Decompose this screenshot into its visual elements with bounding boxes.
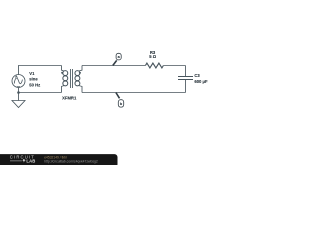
svg-text:http://circuitlab.com/c4qvk47z: http://circuitlab.com/c4qvk47zwbsg2 — [44, 160, 98, 164]
svg-text:XFMR1: XFMR1 — [62, 96, 77, 101]
svg-text:600 µF: 600 µF — [194, 79, 208, 84]
svg-text:C3: C3 — [194, 73, 200, 78]
svg-text:50 Hz: 50 Hz — [29, 83, 40, 88]
svg-text:LAB: LAB — [26, 158, 35, 163]
svg-text:sine: sine — [29, 77, 38, 82]
svg-text:V1: V1 — [29, 71, 35, 76]
svg-text:5 Ω: 5 Ω — [149, 54, 156, 59]
